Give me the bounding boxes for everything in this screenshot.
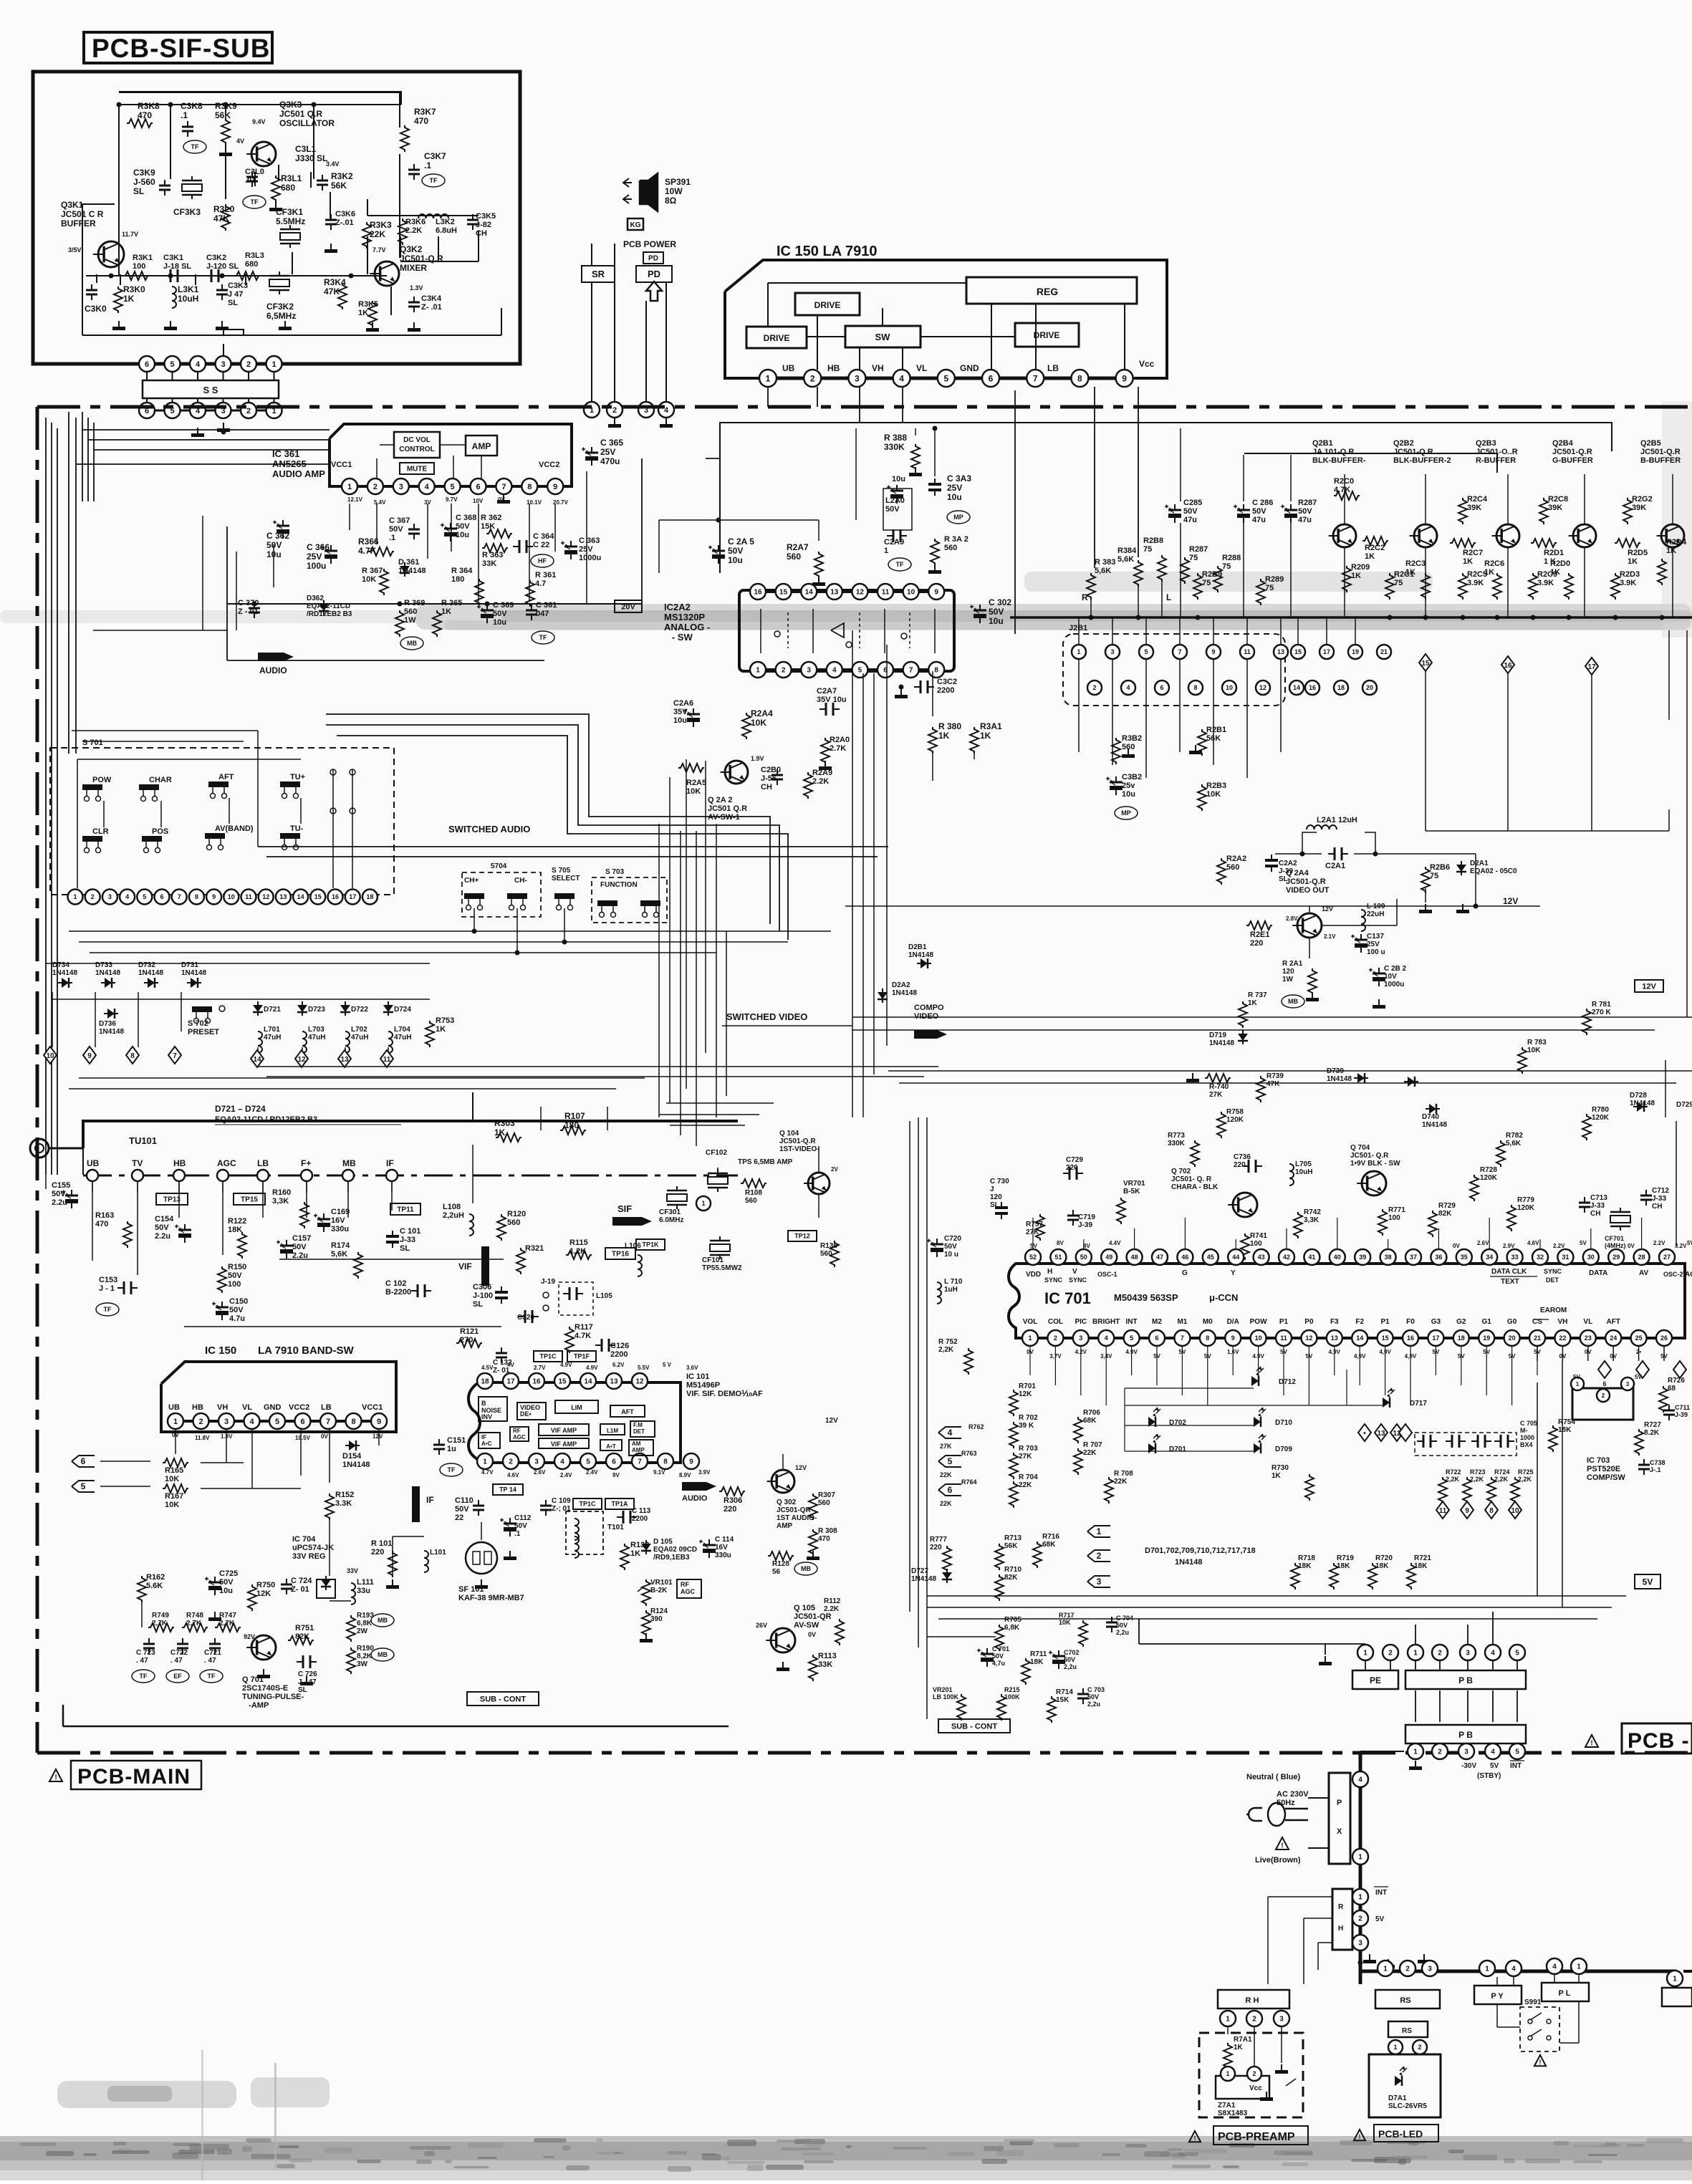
svg-text:R730: R730	[1272, 1464, 1289, 1472]
svg-text:SL: SL	[990, 1201, 999, 1209]
svg-text:13: 13	[830, 589, 839, 597]
svg-text:R306: R306	[724, 1496, 742, 1505]
wire base bus	[86, 274, 387, 279]
svg-text:C 364: C 364	[533, 532, 554, 541]
svg-text:C738: C738	[1650, 1459, 1665, 1466]
capacitor C736	[1234, 1153, 1262, 1173]
svg-text:AV(BAND): AV(BAND)	[215, 824, 254, 833]
resistor R3L0	[213, 204, 235, 231]
capacitor C720	[927, 1235, 961, 1259]
svg-text:INT: INT	[1375, 1889, 1387, 1897]
svg-text:J-33: J-33	[1652, 1195, 1666, 1203]
svg-text:31: 31	[1562, 1254, 1569, 1261]
svg-text:7: 7	[638, 1458, 642, 1466]
pin labels IC701 bottom	[1023, 1307, 1620, 1326]
block IF AGC	[479, 1433, 500, 1448]
transistor Q3K3	[236, 100, 335, 166]
capacitor C719	[1067, 1210, 1095, 1229]
svg-text:680: 680	[245, 260, 258, 269]
svg-text:560: 560	[944, 544, 957, 552]
svg-text:10uH: 10uH	[1295, 1168, 1312, 1176]
svg-text:R2C8: R2C8	[1548, 495, 1568, 504]
svg-text:100: 100	[1250, 1240, 1262, 1248]
svg-text:BUFFER: BUFFER	[61, 218, 96, 228]
transistor Q2B1	[1312, 439, 1366, 547]
svg-text:1: 1	[1363, 1650, 1367, 1658]
capacitor C712	[1640, 1187, 1669, 1211]
label 12V boxed	[1635, 980, 1663, 992]
ic IC2A2 internals	[761, 609, 935, 653]
svg-text:5: 5	[943, 373, 948, 383]
svg-text:CF301: CF301	[659, 1208, 681, 1216]
svg-text:10u: 10u	[456, 531, 469, 539]
inductor L705	[1289, 1160, 1312, 1185]
svg-text:75: 75	[1430, 872, 1438, 880]
svg-text:15K: 15K	[1056, 1696, 1069, 1704]
svg-text:L3K1: L3K1	[178, 284, 199, 294]
svg-text:!: !	[1281, 1842, 1283, 1850]
svg-text:.1: .1	[389, 534, 395, 542]
svg-text:82K: 82K	[1438, 1210, 1452, 1218]
svg-text:8: 8	[663, 1458, 668, 1466]
diode D362	[307, 595, 352, 618]
capacitor C101	[386, 1227, 420, 1253]
svg-text:R366: R366	[358, 537, 379, 547]
resistor R719	[1330, 1554, 1354, 1589]
svg-text:13: 13	[610, 1378, 618, 1386]
svg-text:75: 75	[1265, 584, 1274, 592]
svg-text:Q 2A 2: Q 2A 2	[708, 796, 732, 804]
block LIM	[555, 1400, 598, 1413]
resistor R2C7	[1450, 539, 1483, 566]
resistor R3K5	[358, 300, 378, 327]
svg-text:PCB -: PCB -	[1628, 1729, 1690, 1753]
resistor R152	[325, 1491, 354, 1520]
capacitor C3A3	[928, 473, 971, 524]
svg-text:4: 4	[1511, 1966, 1516, 1973]
svg-text:D729: D729	[1676, 1101, 1692, 1109]
svg-text:L702: L702	[351, 1026, 367, 1034]
potentiometer VR201	[933, 1686, 966, 1721]
svg-text:LIM: LIM	[571, 1404, 582, 1411]
switch TU+	[280, 773, 305, 799]
svg-text:L105: L105	[596, 1292, 612, 1300]
svg-text:10u: 10u	[989, 616, 1004, 626]
svg-text:C713: C713	[1590, 1194, 1607, 1202]
svg-text:D721 – D724: D721 – D724	[215, 1104, 266, 1114]
pins RS2	[1388, 2040, 1427, 2054]
block DRIVE upper	[795, 293, 860, 315]
svg-text:R124: R124	[650, 1607, 668, 1615]
svg-text:2: 2	[1388, 1650, 1393, 1658]
svg-text:RS: RS	[1400, 1996, 1410, 2005]
svg-text:560: 560	[745, 1197, 757, 1205]
svg-text:3: 3	[1110, 648, 1114, 655]
svg-text:OSC-1: OSC-1	[1097, 1271, 1117, 1278]
svg-text:3: 3	[1097, 1577, 1102, 1587]
svg-text:.1: .1	[514, 1530, 521, 1538]
svg-text:5: 5	[948, 1456, 953, 1466]
svg-text:40: 40	[1334, 1254, 1341, 1261]
block ATT	[600, 1440, 622, 1451]
svg-text:51: 51	[1054, 1254, 1062, 1261]
svg-text:CF102: CF102	[706, 1149, 727, 1157]
svg-text:R384: R384	[1117, 547, 1137, 555]
svg-text:R287: R287	[1298, 499, 1317, 507]
svg-text:Q3K1: Q3K1	[61, 200, 84, 210]
capacitor C3K9	[133, 168, 170, 196]
svg-text:IC2A2: IC2A2	[664, 602, 691, 612]
svg-text:R3K0: R3K0	[123, 284, 145, 294]
svg-text:R728: R728	[1480, 1166, 1497, 1174]
svg-text:9: 9	[1231, 1334, 1235, 1342]
warning triangle S991	[1534, 2055, 1546, 2066]
svg-text:5V: 5V	[1030, 1243, 1037, 1249]
diode D732	[138, 961, 163, 988]
svg-text:3: 3	[1079, 1334, 1082, 1342]
svg-text:7: 7	[1178, 648, 1181, 655]
svg-text:6: 6	[612, 1458, 616, 1466]
svg-text:F2: F2	[1355, 1318, 1364, 1326]
svg-text:M1: M1	[1177, 1318, 1187, 1326]
svg-text:R 781: R 781	[1592, 1001, 1611, 1009]
svg-text:1N4148: 1N4148	[398, 567, 426, 575]
diode D721	[253, 1001, 281, 1053]
svg-text:2: 2	[1092, 684, 1096, 691]
svg-text:560: 560	[1226, 863, 1239, 872]
switch block S703 FUNCTION	[592, 868, 667, 923]
svg-text:R2A2: R2A2	[1226, 855, 1246, 863]
resistor R711	[1022, 1650, 1047, 1685]
pins IC701 top	[1025, 1249, 1675, 1265]
capacitor C703	[1077, 1686, 1105, 1708]
svg-text:82K: 82K	[295, 1632, 309, 1641]
speaker SP391	[623, 173, 691, 230]
svg-text:R215: R215	[1004, 1686, 1020, 1693]
svg-text:3/5V: 3/5V	[68, 246, 82, 254]
svg-text:36: 36	[1435, 1254, 1442, 1261]
resistor R741	[1241, 1232, 1267, 1260]
transistor Q3K2	[370, 244, 443, 286]
svg-text:2.9V: 2.9V	[1503, 1243, 1515, 1249]
svg-text:J-33: J-33	[400, 1236, 415, 1244]
pins S701 row	[68, 890, 378, 905]
svg-text:12V: 12V	[795, 1464, 807, 1471]
svg-text:Q3K3: Q3K3	[279, 100, 302, 110]
svg-text:Q2B3: Q2B3	[1476, 439, 1496, 448]
svg-text:13: 13	[1331, 1334, 1338, 1342]
pin labels IC150	[782, 359, 1155, 373]
capacitor C2B2	[1369, 965, 1407, 988]
pin volts IC701 bottom	[1027, 1349, 1668, 1360]
svg-text:TP1K: TP1K	[642, 1241, 659, 1249]
svg-text:PST520E: PST520E	[1587, 1465, 1620, 1473]
svg-text:8: 8	[1489, 1507, 1494, 1515]
svg-text:2200: 2200	[632, 1515, 648, 1523]
svg-text:56K: 56K	[1004, 1542, 1018, 1550]
svg-text:VIF: VIF	[458, 1261, 472, 1271]
pins PY	[1479, 1961, 1522, 1976]
svg-text:27K: 27K	[940, 1443, 952, 1450]
svg-text:56K: 56K	[215, 110, 231, 120]
capacitor C3K7	[408, 151, 446, 187]
border PCB-MAIN bottom	[37, 1751, 1692, 1755]
wire long h 5v rows	[927, 1596, 1626, 1637]
svg-text:1: 1	[1673, 1976, 1677, 1983]
svg-text:1: 1	[347, 483, 352, 491]
svg-text:J-.1: J-.1	[1650, 1466, 1661, 1473]
svg-text:5: 5	[275, 1418, 279, 1426]
capacitor C713	[1579, 1194, 1607, 1218]
svg-text:/RD9,1EB3: /RD9,1EB3	[653, 1554, 690, 1562]
svg-text:10.1V: 10.1V	[527, 499, 542, 506]
svg-text:AFT: AFT	[1606, 1318, 1620, 1326]
svg-text:2.7V: 2.7V	[534, 1365, 546, 1371]
svg-text:10V: 10V	[1384, 973, 1397, 981]
svg-text:5,6K: 5,6K	[1117, 555, 1134, 564]
svg-text:120K: 120K	[1592, 1114, 1610, 1122]
svg-text:C306: C306	[473, 1283, 491, 1291]
arrow AUDIO2	[682, 1482, 716, 1503]
pin volts IC101	[481, 1362, 711, 1478]
svg-text:2: 2	[1252, 2070, 1256, 2077]
svg-text:330K: 330K	[1168, 1140, 1186, 1148]
svg-text:S 701: S 701	[82, 739, 103, 747]
svg-text:18K: 18K	[1375, 1562, 1389, 1570]
svg-text:D701: D701	[1169, 1445, 1186, 1453]
transistor Q2A2	[678, 755, 764, 822]
label 5V boxed	[1635, 1574, 1660, 1589]
resistor R121	[456, 1327, 482, 1347]
resistor R725	[1511, 1468, 1534, 1504]
svg-text:6,8K: 6,8K	[357, 1620, 372, 1627]
svg-text:S991: S991	[1524, 1998, 1542, 2006]
resistor R2B6	[1421, 863, 1450, 893]
svg-text:SYNC: SYNC	[1069, 1276, 1087, 1284]
block DC VOL CONTROL	[394, 432, 440, 458]
svg-text:R115: R115	[569, 1238, 588, 1247]
svg-text:68: 68	[1668, 1385, 1676, 1392]
svg-text:33K: 33K	[482, 559, 496, 568]
resistor R2A0	[819, 736, 850, 770]
svg-text:COMP/SW: COMP/SW	[1587, 1473, 1625, 1482]
svg-text:D734: D734	[52, 961, 69, 969]
svg-text:330u: 330u	[715, 1552, 731, 1559]
svg-text:32: 32	[1537, 1254, 1544, 1261]
svg-text:2V: 2V	[831, 1166, 838, 1173]
resistor R757	[1026, 1214, 1044, 1241]
svg-text:22K: 22K	[1083, 1449, 1097, 1457]
svg-text:47K: 47K	[213, 213, 229, 223]
potentiometer VR101	[638, 1579, 673, 1606]
svg-text:10u: 10u	[1122, 790, 1135, 799]
svg-text:TF: TF	[104, 1306, 112, 1313]
svg-text:13: 13	[1277, 648, 1284, 655]
svg-text:44: 44	[1232, 1254, 1239, 1261]
pins PX	[1352, 1771, 1368, 1865]
svg-text:9.4V: 9.4V	[252, 118, 266, 125]
resistor R716	[1033, 1533, 1059, 1568]
transformer T101	[566, 1511, 624, 1558]
resistor R3K4	[324, 277, 347, 309]
capacitor C3K2	[205, 254, 239, 282]
resistor R751	[288, 1624, 314, 1645]
svg-text:J-19: J-19	[541, 1278, 555, 1286]
svg-text:R753: R753	[436, 1016, 454, 1025]
resistor R306	[719, 1487, 745, 1514]
label PCB- right bottom	[1585, 1723, 1692, 1754]
svg-text:J-39: J-39	[1675, 1411, 1688, 1418]
svg-text:9: 9	[689, 1458, 693, 1466]
svg-text:4.6V: 4.6V	[507, 1472, 519, 1478]
inductor L111	[347, 1567, 374, 1605]
svg-text:R128: R128	[772, 1560, 789, 1568]
svg-text:10W: 10W	[665, 186, 683, 196]
svg-text:L705: L705	[1295, 1160, 1312, 1168]
svg-text:1: 1	[1358, 1854, 1362, 1862]
svg-text:SIF: SIF	[617, 1203, 632, 1214]
svg-text:9V: 9V	[612, 1472, 620, 1478]
svg-text:C 701: C 701	[992, 1645, 1009, 1653]
diode D712	[1251, 1367, 1296, 1386]
pins IC101 bottom	[477, 1453, 699, 1469]
connector PB	[1405, 1670, 1526, 1689]
svg-text:R107: R107	[564, 1111, 585, 1121]
label R L	[1082, 592, 1171, 602]
arrow AUDIO	[258, 653, 294, 675]
block REG	[966, 277, 1137, 304]
svg-text:C151: C151	[447, 1436, 466, 1445]
resistor R287	[1181, 545, 1208, 584]
svg-text:1K: 1K	[123, 294, 135, 304]
transistor Q104	[804, 1166, 838, 1194]
pins IC701 bottom	[1022, 1330, 1672, 1346]
resistor R2C5	[1458, 570, 1487, 600]
svg-text:2.2V: 2.2V	[1553, 1243, 1565, 1249]
svg-text:7: 7	[178, 893, 181, 900]
pins IC2A2 top	[750, 584, 944, 600]
svg-text:ANALOG -: ANALOG -	[664, 622, 710, 632]
svg-text:C157: C157	[292, 1234, 311, 1243]
svg-text:1N4148: 1N4148	[95, 969, 120, 977]
svg-text:Q2B1: Q2B1	[1312, 439, 1333, 448]
svg-text:D2A2: D2A2	[892, 981, 910, 989]
svg-text:Z-.01: Z-.01	[335, 218, 354, 227]
svg-text:C719: C719	[1078, 1213, 1095, 1221]
svg-text:12V: 12V	[1503, 896, 1518, 906]
svg-text:R288: R288	[1222, 554, 1241, 562]
connector <4>	[938, 1427, 961, 1450]
svg-text:2.1V: 2.1V	[1324, 933, 1336, 940]
svg-text:R 364: R 364	[451, 567, 473, 575]
svg-text:1: 1	[1393, 2044, 1397, 2051]
transistor Q2A4	[1286, 905, 1336, 940]
svg-text:12K: 12K	[256, 1589, 271, 1598]
svg-text:9.7V: 9.7V	[446, 496, 458, 503]
resistor R750	[248, 1581, 275, 1611]
resistor R3L1	[271, 173, 302, 202]
svg-text:10u: 10u	[947, 492, 962, 502]
svg-text:TU+: TU+	[290, 773, 305, 781]
svg-text:R160: R160	[272, 1188, 291, 1197]
svg-text:G-BUFFER: G-BUFFER	[1552, 456, 1593, 465]
svg-text:J-18 SL: J-18 SL	[163, 262, 191, 271]
svg-text:1K: 1K	[938, 731, 950, 741]
capacitor C110	[455, 1496, 484, 1522]
svg-text:560: 560	[787, 552, 801, 562]
svg-text:C 114: C 114	[715, 1536, 734, 1544]
svg-text:C 365: C 365	[600, 438, 623, 448]
svg-text:TP55.5MW2: TP55.5MW2	[702, 1264, 742, 1272]
svg-text:VCC2: VCC2	[289, 1403, 309, 1412]
svg-text:R 703: R 703	[1019, 1445, 1038, 1453]
svg-text:AFT: AFT	[218, 773, 234, 781]
svg-text:R2C0: R2C0	[1334, 477, 1354, 486]
svg-text:R749: R749	[152, 1612, 169, 1620]
resistor R739	[1256, 1072, 1284, 1102]
svg-text:18K: 18K	[1558, 1426, 1572, 1434]
svg-text:3,3K: 3,3K	[272, 1197, 289, 1206]
resistor R724	[1487, 1468, 1510, 1504]
svg-text:AC: AC	[1685, 1271, 1692, 1279]
svg-text:220: 220	[930, 1544, 942, 1552]
svg-text:G0: G0	[1507, 1318, 1517, 1326]
svg-text:2: 2	[612, 406, 617, 415]
resistor R752	[938, 1338, 973, 1375]
svg-text:3: 3	[534, 1458, 539, 1466]
svg-text:16: 16	[332, 893, 339, 900]
capacitor C738	[1638, 1459, 1665, 1475]
svg-text:3: 3	[807, 667, 811, 675]
svg-text:Q3K2: Q3K2	[400, 244, 423, 254]
svg-text:2.4V: 2.4V	[560, 1472, 572, 1478]
svg-text:PIC: PIC	[1075, 1318, 1087, 1326]
svg-text:1: 1	[1577, 1963, 1581, 1971]
svg-text:L106: L106	[625, 1242, 641, 1250]
resistor R2C3	[1405, 559, 1430, 600]
svg-text:PCB-MAIN: PCB-MAIN	[77, 1765, 191, 1789]
svg-text:L2A1 12uH: L2A1 12uH	[1317, 816, 1357, 824]
resistor R174	[331, 1241, 362, 1279]
svg-text:PCB-SIF-SUB: PCB-SIF-SUB	[92, 34, 270, 63]
capacitor C365	[582, 438, 623, 466]
capacitor C3K1	[163, 254, 191, 282]
svg-text:29: 29	[1612, 1254, 1620, 1261]
label TP12	[788, 1231, 817, 1241]
svg-text:1N4148: 1N4148	[892, 989, 917, 997]
capacitor C3K4	[408, 284, 442, 312]
svg-text:4: 4	[1358, 1776, 1362, 1784]
resistor R2B8	[1143, 537, 1166, 582]
svg-text:MB: MB	[407, 640, 417, 647]
connector SR box	[582, 266, 615, 282]
svg-text:1K: 1K	[1234, 2044, 1244, 2051]
svg-text:R748: R748	[186, 1612, 203, 1620]
svg-text:L3K2: L3K2	[436, 218, 455, 226]
svg-text:180: 180	[451, 575, 464, 584]
svg-text:Live(Brown): Live(Brown)	[1255, 1856, 1301, 1865]
connector <2>	[1087, 1550, 1110, 1562]
svg-text:10K: 10K	[362, 575, 376, 584]
block LIM2	[600, 1424, 625, 1435]
svg-text:12: 12	[1305, 1334, 1312, 1342]
svg-text:R 704: R 704	[1019, 1473, 1038, 1481]
svg-text:R303: R303	[494, 1118, 515, 1128]
svg-text:D731: D731	[181, 961, 198, 969]
svg-text:CH: CH	[1652, 1203, 1662, 1211]
label TP15	[234, 1193, 265, 1205]
svg-text:14: 14	[584, 1378, 592, 1386]
